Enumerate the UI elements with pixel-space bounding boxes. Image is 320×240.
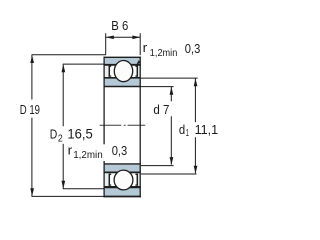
svg-text:d 7: d 7 [153, 102, 169, 117]
d arrow up [170, 87, 174, 95]
svg-text:d: d [179, 122, 185, 137]
B arrow left [106, 36, 114, 40]
shield left (top section) [109, 66, 112, 77]
ball (bottom section) [114, 170, 133, 190]
svg-text:1,2min: 1,2min [73, 149, 103, 161]
bottom section inner ring band (blue) [104, 164, 141, 172]
d1 extension top [141, 77, 198, 79]
side gap tint left (bottom section) [105, 173, 109, 186]
d arrow down [170, 157, 174, 165]
right face line [139, 57, 141, 198]
d1 arrow down [194, 166, 198, 174]
svg-text:16,5: 16,5 [67, 127, 92, 142]
svg-text:0,3: 0,3 [112, 143, 128, 158]
D2 extension bottom [63, 188, 104, 190]
B extension line right [139, 33, 141, 55]
left face line (with gap for text 0,3) [103, 57, 105, 145]
d1 arrow up [194, 79, 198, 87]
ball (top section) [114, 61, 132, 82]
svg-text:0,3: 0,3 [185, 41, 201, 56]
D2 dimension (left inner) [63, 64, 104, 189]
bottom section shoulder line [104, 171, 141, 173]
D2 arrow up [62, 64, 66, 72]
d dimension (right, bore) [141, 87, 174, 166]
top section bore edge [104, 86, 141, 88]
d extension bottom [141, 165, 174, 167]
svg-text:D 19: D 19 [20, 102, 40, 117]
top section top edge [104, 56, 141, 58]
D dimension (left outer) [32, 55, 106, 197]
D extension bottom [32, 195, 105, 197]
svg-text:2: 2 [58, 132, 63, 144]
svg-text:D: D [50, 126, 58, 141]
D arrow down [30, 188, 34, 196]
bottom section shield-groove line [104, 186, 141, 188]
svg-text:r: r [68, 143, 73, 158]
svg-text:1: 1 [186, 127, 189, 139]
svg-text:r: r [143, 40, 148, 55]
bottom section bottom edge [104, 196, 141, 198]
B extension line left [105, 33, 107, 54]
B arrow right [132, 36, 140, 40]
top section shield-groove line [104, 64, 141, 66]
D arrow up [30, 55, 34, 63]
D extension top [32, 54, 106, 56]
d1 dimension (right, shoulder) [141, 78, 198, 174]
B dimension line [106, 33, 141, 55]
bottom section bore edge (top) [104, 163, 141, 165]
D2 arrow down [62, 181, 66, 189]
top section shoulder line (d1 level) [104, 77, 141, 79]
r leader arrowhead at top-right chamfer [136, 60, 140, 64]
d extension top [141, 86, 174, 88]
centerline (bearing axis, dash-dot) [100, 124, 146, 126]
shield right (top section) [135, 66, 138, 77]
side gap tint left (top section) [105, 66, 109, 77]
side gap tint right (top section) [138, 66, 140, 77]
svg-text:B 6: B 6 [111, 18, 128, 33]
shield right (bottom section) [135, 174, 138, 186]
svg-text:11,1: 11,1 [195, 122, 219, 137]
shield left (bottom section) [109, 174, 112, 186]
top section inner ring band (blue) [104, 78, 141, 87]
d1 extension bottom [141, 173, 197, 175]
D2 extension top [63, 63, 104, 65]
top section outer ring band (blue) [104, 57, 141, 65]
svg-text:1,2min: 1,2min [150, 47, 178, 59]
bottom section outer ring band (blue) [104, 188, 141, 197]
side gap tint right (bottom section) [138, 173, 140, 186]
